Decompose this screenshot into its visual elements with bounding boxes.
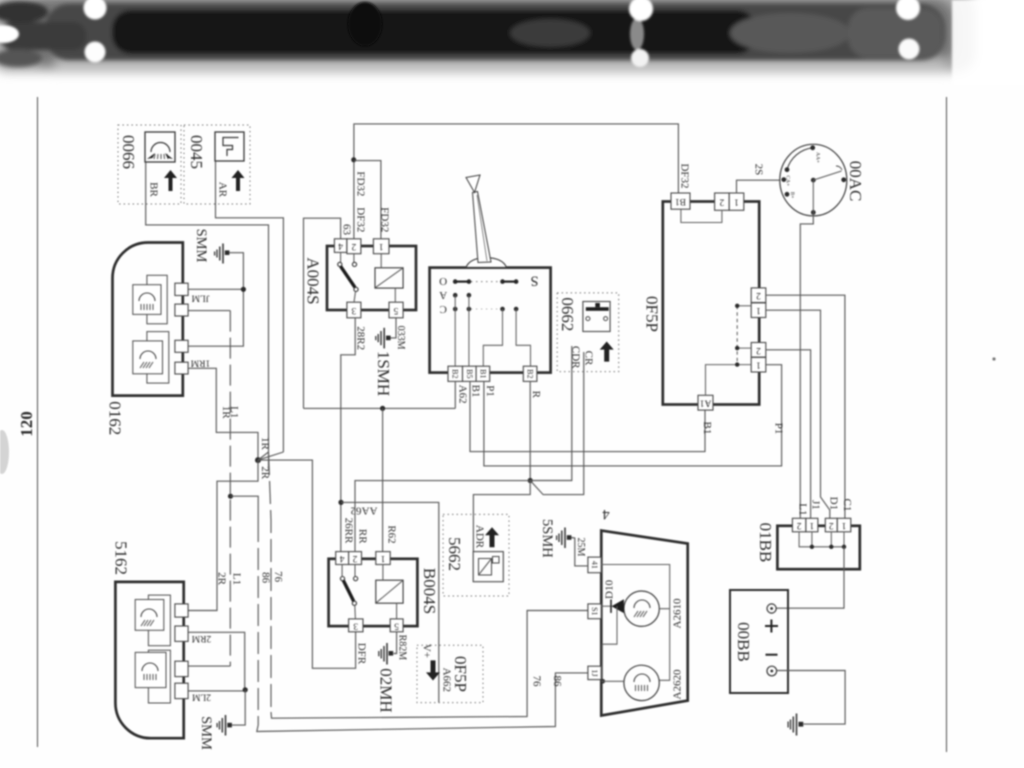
ignition switch CA00: [780, 144, 865, 216]
pin 4: [336, 552, 349, 565]
ground MMS at 2610: [193, 229, 229, 264]
svg-text:01BB: 01BB: [756, 523, 775, 563]
net 67 continuation down to trapezoid S1: [268, 452, 270, 470]
contact arc: [787, 148, 813, 170]
svg-text:B5: B5: [465, 369, 474, 378]
pin cell 2B: [448, 366, 463, 381]
plus sign: [765, 620, 778, 633]
pin cell 5B: [463, 366, 477, 381]
scanned binding strip at top: [0, 0, 1024, 100]
page border line right: [946, 97, 948, 752]
output to battery: [776, 547, 844, 608]
svg-text:C1: C1: [841, 498, 853, 511]
dashed destination box 5400: [184, 125, 250, 204]
pin 3: [175, 661, 188, 676]
svg-text:DF32: DF32: [355, 207, 367, 232]
svg-text:A1: A1: [699, 398, 711, 408]
svg-text:2LM: 2LM: [191, 692, 211, 702]
svg-text:25M: 25M: [575, 537, 586, 556]
harness arrow RA: [217, 170, 245, 198]
pin 5: [389, 302, 403, 318]
svg-text:DFR: DFR: [356, 643, 368, 665]
svg-text:A662: A662: [440, 668, 452, 692]
R net diagonal to RC: [530, 352, 584, 495]
line center to bottom: [812, 180, 814, 212]
net 68 branch to trapezoid pin J1: [231, 496, 259, 520]
pin 1 top: [729, 193, 744, 210]
pin B1: [671, 193, 690, 209]
wire S400B pin2 up (net RR): [355, 481, 530, 552]
svg-text:O: O: [439, 275, 447, 287]
R net to RDC: [530, 346, 572, 481]
harness arrow +V down: [426, 660, 440, 680]
lamp unit 6250 (trapezoid): [588, 506, 688, 716]
wire P5F0 side 1 lower to 1P: [766, 364, 782, 366]
svg-text:2S: 2S: [752, 164, 764, 176]
wire P5F0 side 1 upper to BB10 pin3: [766, 310, 830, 518]
wire S400B pin5 to ground: [394, 632, 397, 654]
svg-text:L1: L1: [231, 573, 243, 585]
harness arrow RDA: [485, 527, 499, 547]
svg-text:76: 76: [531, 676, 543, 688]
pin 2: [349, 552, 362, 565]
wire 2610 pin2 dashed net 1L to 2615 pin3: [188, 310, 230, 312]
svg-text:1: 1: [841, 520, 846, 530]
pin cell 1B: [476, 366, 490, 381]
wire from 6600 down and right to junction (net 67): [146, 163, 269, 453]
plus terminal: [767, 604, 776, 613]
svg-text:5: 5: [394, 620, 399, 630]
wire CA00 bottom to BB10 pin1: [800, 212, 813, 518]
svg-text:5162: 5162: [112, 541, 131, 575]
svg-text:76: 76: [272, 571, 284, 583]
svg-text:2: 2: [352, 553, 357, 563]
svg-text:0F5P: 0F5P: [643, 296, 662, 332]
svg-text:0F5P: 0F5P: [451, 656, 470, 692]
dashed box 2665: [443, 514, 509, 596]
svg-text:1J: 1J: [590, 669, 599, 676]
svg-text:A2610: A2610: [671, 598, 683, 628]
svg-text:R82M: R82M: [397, 635, 408, 661]
side pin 2 upper: [751, 288, 766, 303]
junction dot on 1L: [228, 494, 233, 499]
svg-text:R62: R62: [386, 525, 398, 543]
headlamp unit 2610: [105, 243, 210, 436]
relay S400A: [304, 239, 417, 318]
scan smudge left edge: [0, 430, 9, 474]
lever base: [466, 258, 507, 268]
pin 3: [347, 302, 361, 318]
svg-text:CDR: CDR: [570, 346, 582, 369]
wire switch R pin down: [529, 381, 531, 480]
pin 1: [376, 552, 390, 565]
svg-text:B1: B1: [701, 421, 713, 434]
pin 2: [792, 518, 806, 532]
net R2 to 2615 pin1: [188, 460, 258, 610]
svg-text:SMM: SMM: [193, 229, 209, 263]
pin 4: [334, 239, 347, 253]
svg-text:1R: 1R: [259, 437, 271, 451]
svg-text:4: 4: [339, 553, 344, 563]
svg-text:V+: V+: [420, 644, 432, 658]
svg-text:02MH: 02MH: [377, 668, 396, 712]
pin 4: [175, 362, 188, 374]
wire S400A pin5 to ground: [391, 318, 396, 338]
lamp assembly 1 (low beam): [148, 595, 170, 646]
svg-text:P1: P1: [484, 385, 496, 397]
dot and drop to ground: [243, 687, 248, 692]
svg-text:4: 4: [338, 241, 343, 251]
contacts and blade: [341, 565, 343, 577]
harness arrow: [600, 342, 614, 362]
switch contacts and blade: [340, 252, 342, 262]
internal bus: [737, 305, 751, 307]
lighting switch 2600 with lever: [430, 175, 551, 381]
svg-text:5SMH: 5SMH: [539, 519, 555, 558]
minus sign: [766, 654, 778, 656]
lamp assembly 1 (position): [147, 275, 167, 324]
wire trapezoid pin14 to ground: [571, 538, 588, 566]
wire S400A pin3 down to S400B pin4 (net 86RR): [341, 318, 355, 552]
svg-text:033M: 033M: [395, 326, 406, 350]
wire S400A pin2 up to top rail: [354, 124, 679, 239]
ground HMS5: [539, 519, 586, 558]
lamp assembly 2 (position): [148, 650, 170, 703]
wire P5F0 side 2 upper to BB10 pin4: [766, 295, 845, 518]
pin cell 2B right: [523, 366, 537, 381]
svg-text:A: A: [439, 289, 447, 301]
dashed box 2660: [557, 293, 619, 372]
side pin 1 upper: [751, 303, 766, 318]
svg-text:A004S: A004S: [304, 257, 323, 304]
stray mark: [992, 357, 995, 360]
net R1/R2 right branch to relay S400B pin3: [258, 460, 356, 668]
pin 1S: [588, 604, 601, 619]
wire switch 1P pin to P5F0 right pin: [484, 365, 782, 466]
wire battery minus to ground: [777, 671, 846, 725]
pin 2 top: [715, 193, 730, 210]
wiper: [813, 171, 841, 180]
wire switch 1B pin to P5F0 A1: [470, 381, 705, 451]
svg-text:2: 2: [829, 520, 834, 530]
internal bus: [799, 532, 844, 547]
svg-text:B1: B1: [478, 369, 487, 378]
svg-text:2R: 2R: [216, 572, 228, 586]
svg-text:1: 1: [756, 305, 761, 315]
pin 1: [175, 604, 188, 617]
pin 1b: [837, 518, 851, 532]
junction dot on pin2 wire: [351, 157, 356, 162]
svg-text:0162: 0162: [105, 401, 124, 435]
ground MMS at 2615: [198, 715, 232, 750]
svg-text:AA+: AA+: [815, 152, 821, 163]
wire switch 26A pin down to rail: [454, 381, 456, 408]
net 26A rail: [304, 407, 456, 409]
svg-text:BR: BR: [148, 182, 160, 197]
svg-text:120: 120: [17, 411, 36, 437]
svg-text:CA+: CA+: [785, 175, 791, 186]
branch to lamp2: [602, 606, 617, 681]
internal link B1 to 2: [681, 209, 722, 222]
lamp circle 1 low beam: [624, 591, 659, 626]
main junction R1/R2: [255, 457, 261, 463]
svg-text:86: 86: [551, 676, 563, 688]
wire S400A pin4 loop to 26A line: [304, 218, 341, 408]
svg-text:S1: S1: [590, 607, 599, 615]
pin 2b: [825, 518, 837, 532]
svg-text:2: 2: [756, 345, 761, 355]
svg-text:D10: D10: [604, 580, 616, 599]
svg-text:FD32: FD32: [355, 171, 367, 196]
harness arrow RB: [148, 170, 178, 197]
svg-text:3: 3: [353, 620, 358, 630]
svg-text:0045: 0045: [187, 135, 206, 169]
dashed box P5F0 +V: [417, 644, 483, 703]
pin 1: [373, 239, 389, 254]
coil: [376, 580, 403, 603]
svg-text:B1: B1: [675, 196, 686, 206]
lamp circle 2 position: [624, 665, 659, 700]
svg-text:A62: A62: [457, 385, 469, 404]
svg-text:RR: RR: [356, 529, 368, 544]
pin 1 JLM: [175, 283, 188, 295]
pin 2: [347, 239, 361, 254]
svg-text:3: 3: [351, 305, 356, 315]
junction dot 26A: [380, 406, 385, 411]
connector box BB10: [756, 518, 860, 608]
svg-text:00AC: 00AC: [846, 161, 865, 202]
junction dot R: [528, 478, 533, 483]
svg-text:63: 63: [341, 224, 353, 236]
svg-text:B+: B+: [789, 192, 795, 199]
svg-text:28R2: 28R2: [355, 326, 367, 350]
battery BB00: [730, 590, 788, 693]
svg-text:L1: L1: [228, 406, 240, 418]
page border line left: [37, 97, 39, 747]
pin 3 1RM: [175, 340, 188, 352]
svg-text:1: 1: [734, 197, 739, 207]
svg-text:JLM: JLM: [191, 293, 210, 303]
pin J1: [588, 666, 601, 679]
R net stub down: [473, 481, 530, 552]
svg-text:86: 86: [259, 572, 271, 584]
svg-text:R: R: [530, 391, 542, 399]
svg-text:2: 2: [756, 290, 761, 300]
svg-text:4: 4: [602, 506, 610, 522]
svg-text:41: 41: [590, 561, 599, 569]
drop to S400B pin1: [382, 408, 384, 551]
ground at battery: [788, 714, 803, 736]
svg-text:CR: CR: [583, 351, 595, 366]
svg-text:P1: P1: [772, 423, 784, 435]
svg-text:1SMH: 1SMH: [374, 351, 393, 396]
86RR branch to +V (P5F0 dashed): [341, 502, 439, 702]
wire 2615 pin2 to ground dot: [188, 632, 245, 690]
pin 3: [349, 619, 363, 632]
dashed destination box 6600: [118, 125, 181, 204]
svg-text:5: 5: [393, 305, 398, 315]
svg-text:FD32: FD32: [378, 207, 390, 232]
svg-text:AR: AR: [217, 182, 229, 198]
svg-text:2: 2: [351, 241, 356, 251]
svg-text:2RM: 2RM: [191, 633, 211, 643]
side pin 2 lower: [751, 343, 766, 358]
svg-text:1: 1: [756, 360, 761, 370]
svg-text:26RR: 26RR: [343, 518, 355, 544]
internal feed wire: [601, 565, 670, 681]
svg-text:ADR: ADR: [474, 525, 486, 549]
pin 14: [588, 557, 601, 573]
junction dot on 86RR at S400B pin4: [338, 500, 343, 505]
pin 5: [390, 619, 403, 632]
svg-text:SMM: SMM: [198, 716, 214, 750]
wire P5F0 top pin1 to CA00: [737, 180, 781, 193]
control box P5F0: [643, 193, 766, 410]
side pin 1 lower: [751, 357, 766, 372]
rim and center dots: [810, 145, 815, 150]
svg-text:1: 1: [380, 553, 385, 563]
svg-text:S: S: [530, 272, 538, 288]
lamp assembly 2 (low beam): [147, 332, 169, 384]
relay coil: [375, 268, 403, 288]
svg-text:B2: B2: [451, 369, 460, 378]
headlamp unit 2615: [112, 541, 212, 738]
pin 2: [175, 304, 188, 316]
svg-text:0662: 0662: [558, 297, 577, 331]
internal drops: [454, 295, 456, 366]
switch icon: [583, 302, 610, 332]
svg-text:A2620: A2620: [671, 669, 683, 699]
wire S400A pin1 up to dot: [354, 161, 381, 239]
svg-text:1: 1: [379, 241, 384, 251]
ground HMS1: [374, 326, 406, 397]
diode D10: [601, 605, 611, 607]
svg-text:L1: L1: [797, 503, 809, 515]
svg-text:00BB: 00BB: [734, 622, 753, 662]
lever shaft: [473, 192, 492, 263]
diagonal taps from 6600/5400 wires into junction: [258, 452, 283, 460]
svg-text:1RM: 1RM: [190, 358, 210, 368]
wire 2610 pin4 net R1 to junction: [188, 368, 258, 460]
svg-text:0066: 0066: [119, 135, 138, 169]
svg-text:B2: B2: [526, 369, 535, 378]
svg-text:2: 2: [719, 197, 724, 207]
relay icon: [473, 552, 503, 582]
relay S400B: [329, 552, 439, 632]
lever knob: [466, 175, 480, 193]
svg-text:J1: J1: [810, 500, 822, 510]
pin 4 2LM: [175, 683, 188, 698]
wire P5F0 side 2 lower to BB10 pin2: [766, 350, 811, 519]
junction dot: [241, 287, 246, 292]
svg-text:1: 1: [809, 520, 814, 530]
pin A1 bottom: [698, 395, 713, 410]
wire from 5400 down and right (net R1 tap): [216, 162, 284, 453]
pin 1: [806, 518, 818, 532]
pin 2 2RM: [175, 626, 188, 641]
wire 2615 pin4 to ground dot: [188, 690, 245, 692]
svg-text:C: C: [440, 303, 447, 315]
svg-text:D1: D1: [827, 497, 839, 510]
ground HM20: [377, 635, 408, 713]
svg-text:5662: 5662: [445, 537, 464, 571]
svg-text:B1: B1: [470, 385, 482, 398]
minus terminal: [767, 666, 777, 676]
svg-text:2: 2: [796, 520, 801, 530]
svg-text:DF32: DF32: [678, 163, 690, 188]
wire 2610 pin1+pin3 to ground: [188, 253, 243, 347]
svg-text:B004S: B004S: [420, 568, 439, 614]
